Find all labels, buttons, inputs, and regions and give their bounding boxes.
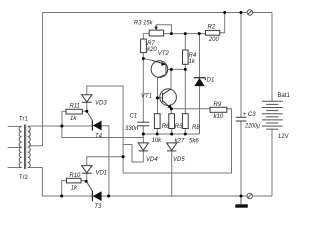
wire VT1 emitter drop <box>170 109 172 114</box>
wire R11 right lead <box>83 110 87 112</box>
wire battery top drop <box>271 13 273 102</box>
node R4 top <box>184 32 187 35</box>
node D1 top <box>198 32 201 35</box>
transformer core <box>24 125 26 170</box>
wire R10 right lead <box>81 180 86 182</box>
svg-text:k10: k10 <box>214 114 224 120</box>
resistor R2 <box>206 30 220 35</box>
wire VD5 drop <box>171 151 173 196</box>
diode VD1 <box>82 166 92 174</box>
battery Bat1 <box>262 101 283 129</box>
node VT1 emitter <box>170 107 173 110</box>
wire primary stub mid <box>8 147 22 149</box>
wire top rail <box>43 12 247 14</box>
node T4 output <box>107 195 110 198</box>
svg-text:R11: R11 <box>69 104 80 110</box>
resistor R8 <box>182 114 188 129</box>
wire battery to bottom terminal <box>253 195 272 197</box>
wire T4 cathode drop <box>102 126 109 196</box>
diode VD3 <box>82 95 92 103</box>
svg-text:VD4: VD4 <box>146 157 158 163</box>
wire R4-R8 rail <box>184 64 186 113</box>
svg-text:k20: k20 <box>147 47 157 53</box>
wire C3 rail lower <box>240 121 242 196</box>
transistor VT2 emitter arrow <box>161 62 165 66</box>
svg-text:VD5: VD5 <box>173 157 185 163</box>
wire transformer mid tap <box>29 145 43 147</box>
node ground <box>240 195 243 198</box>
transistor VT1 emitter arrow <box>167 104 171 109</box>
node T3 gate <box>85 180 88 183</box>
svg-text:C3: C3 <box>248 112 256 118</box>
svg-text:330n: 330n <box>125 126 139 132</box>
diode D1 (on rail) <box>194 78 206 86</box>
wire VD1 top bus <box>87 157 123 166</box>
wire VT2 collector rail <box>157 78 159 114</box>
svg-text:VT1: VT1 <box>141 93 152 99</box>
wire D1 rail <box>199 34 201 78</box>
wire feedback bus y173 <box>123 172 231 174</box>
terminal top <box>247 10 252 15</box>
wire R7 rail <box>142 53 144 123</box>
wire C1 bottom to VD4 <box>142 126 144 143</box>
wire VD1 anode lead <box>86 173 88 181</box>
wire R10 left lead <box>62 181 67 196</box>
svg-text:T3: T3 <box>94 204 102 210</box>
node R10 bottom <box>60 195 63 198</box>
diode VD5 <box>167 143 177 151</box>
resistor R11 <box>66 109 82 114</box>
svg-text:R2: R2 <box>208 25 216 31</box>
svg-text:VD1: VD1 <box>96 171 108 177</box>
node top C3 <box>240 11 243 14</box>
potentiometer R3 wiper arrow <box>154 25 158 30</box>
wire R11 to C1 link <box>62 126 143 138</box>
svg-text:R9: R9 <box>214 102 222 108</box>
wire VT2 emitter lead <box>143 59 152 61</box>
resistor R9 <box>210 107 227 112</box>
wire VD3 anode lead <box>86 102 88 111</box>
svg-text:Tr1: Tr1 <box>19 117 28 123</box>
svg-text:1k: 1k <box>71 186 78 192</box>
wire R11 gate bus <box>62 111 66 126</box>
wire VD4 return <box>123 145 143 163</box>
wire primary stub bottom <box>8 167 22 169</box>
resistor R10 <box>67 178 82 183</box>
resistor R6 <box>154 114 160 129</box>
svg-text:D1: D1 <box>207 78 215 84</box>
node VD1 bus <box>122 155 125 158</box>
svg-text:1k: 1k <box>189 59 196 65</box>
wire D1 anode rail <box>199 86 201 134</box>
node T4 gate <box>85 110 88 113</box>
thyristor T3 <box>86 181 101 201</box>
ground <box>235 196 248 208</box>
resistor R5 <box>169 114 175 129</box>
svg-text:R6: R6 <box>162 124 170 130</box>
resistor R4 <box>183 50 189 64</box>
wire left rail (center tap riser) <box>42 13 44 146</box>
svg-text:T4: T4 <box>95 133 103 139</box>
wire VT2 base link <box>168 68 186 70</box>
node bus C1 <box>142 133 145 136</box>
transistor VT1 <box>160 89 177 109</box>
wire battery bottom drop <box>271 129 273 196</box>
node bus R5 <box>170 133 173 136</box>
svg-text:R8: R8 <box>192 125 200 131</box>
wire primary stub top <box>8 125 22 127</box>
svg-text:VT2: VT2 <box>158 51 170 57</box>
wire R3 wiper loop <box>156 25 171 34</box>
wire VT1 collector riser <box>170 69 172 88</box>
node bus R6 <box>156 133 159 136</box>
svg-text:10k: 10k <box>152 138 163 144</box>
svg-text:1k: 1k <box>70 116 77 122</box>
svg-text:2200µ: 2200µ <box>244 123 260 129</box>
node bus R8 <box>184 133 187 136</box>
wire R3 left lead <box>143 34 149 40</box>
node R4 bottom <box>184 68 187 71</box>
svg-text:VD3: VD3 <box>95 101 107 107</box>
svg-text:+: + <box>243 112 247 118</box>
wire VT1 base lead <box>157 97 162 99</box>
wire terminal to battery top <box>253 12 272 14</box>
svg-text:5k6: 5k6 <box>189 139 199 145</box>
svg-text:200: 200 <box>208 37 220 43</box>
svg-text:12V: 12V <box>278 134 289 140</box>
svg-text:Tr2: Tr2 <box>19 175 28 181</box>
svg-text:C1: C1 <box>130 114 138 120</box>
wire C3 rail upper <box>240 13 242 118</box>
svg-text:R3 15k: R3 15k <box>134 21 153 27</box>
transistor VT2 <box>151 60 168 77</box>
wire R8 bottom lead <box>184 129 186 135</box>
wire R2 riser <box>220 13 225 33</box>
transformer Tr1/Tr2 windings <box>19 125 30 170</box>
wire T4 anode <box>29 125 93 127</box>
svg-text:R10: R10 <box>69 173 81 179</box>
wire R9 right drop <box>227 109 232 173</box>
wire VD3 top link <box>87 86 123 173</box>
capacitor C3 <box>236 117 247 121</box>
resistor R3 (pot) <box>149 30 163 36</box>
node VT1 base <box>156 96 159 99</box>
terminal bottom <box>247 193 252 198</box>
thyristor T4 <box>87 111 102 130</box>
node VT2 emitter <box>142 57 145 60</box>
wire R4 top lead <box>184 34 186 50</box>
node VT2 base / VT1 collector <box>170 68 173 71</box>
wire R9 left lead (from VT1 emitter) <box>171 108 210 110</box>
svg-text:R5: R5 <box>175 124 183 130</box>
node wiper <box>170 32 173 35</box>
wire transformer bottom to T3 <box>29 168 43 197</box>
diode VD4 <box>138 143 148 151</box>
resistor R7 <box>141 39 147 53</box>
svg-text:k27: k27 <box>175 139 185 145</box>
capacitor C1 <box>137 122 149 126</box>
node top R2 <box>223 11 226 14</box>
wire divider bus <box>143 133 199 135</box>
wire R3-R2 bus <box>164 33 206 35</box>
wire R6 bottom lead <box>156 129 158 135</box>
node R11 drop <box>60 125 63 128</box>
wire R5 bottom lead <box>171 129 173 135</box>
svg-text:Bat1: Bat1 <box>278 93 291 99</box>
wire bottom rail <box>42 195 246 197</box>
